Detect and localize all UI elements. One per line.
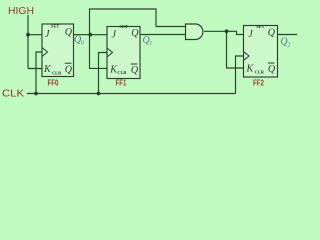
svg-text:K: K bbox=[43, 64, 52, 75]
svg-text:FF0: FF0 bbox=[48, 78, 59, 88]
junction CLK-FF1 bbox=[97, 92, 101, 96]
svg-text:Q: Q bbox=[131, 65, 139, 76]
svg-text:FF1: FF1 bbox=[116, 78, 127, 88]
svg-text:Q: Q bbox=[65, 27, 73, 38]
svg-text:J: J bbox=[112, 29, 117, 40]
node Q0 bbox=[74, 35, 84, 47]
node Q2 bbox=[280, 37, 290, 49]
svg-text:2: 2 bbox=[287, 43, 290, 49]
and gate U1 bbox=[186, 24, 203, 40]
wire CLK rail bbox=[27, 93, 236, 95]
svg-text:1: 1 bbox=[149, 41, 152, 47]
svg-text:0: 0 bbox=[81, 41, 84, 47]
svg-text:Q: Q bbox=[65, 65, 73, 76]
svg-text:SET: SET bbox=[256, 24, 264, 29]
svg-text:CLR: CLR bbox=[117, 70, 127, 75]
junction HIGH-J bbox=[26, 33, 30, 37]
svg-text:CLK: CLK bbox=[2, 88, 24, 100]
junction CLK-FF0 bbox=[34, 92, 38, 96]
wire Q0 riser to top rail into AND top input bbox=[90, 9, 186, 35]
svg-text:J: J bbox=[45, 29, 50, 40]
svg-text:CLR: CLR bbox=[52, 70, 62, 75]
wire Q0 down to FF1 K bbox=[90, 35, 108, 69]
wire FF2 Q output (node Q2) bbox=[278, 34, 298, 36]
wire FF2 clock branch from CLK rail end bbox=[236, 56, 244, 94]
flip-flop FF0 bbox=[42, 24, 74, 77]
wire HIGH vertical to J and K of FF0 bbox=[28, 15, 42, 69]
svg-text:FF2: FF2 bbox=[253, 78, 264, 88]
svg-text:J: J bbox=[248, 29, 253, 40]
svg-text:Q: Q bbox=[131, 28, 139, 39]
flip-flop FF1 bbox=[107, 24, 140, 79]
wire FF0 clock branch bbox=[36, 52, 42, 94]
junction Q0 bbox=[88, 33, 92, 37]
flip-flop FF2 bbox=[244, 24, 278, 77]
node Q1 bbox=[143, 35, 153, 47]
svg-text:SET: SET bbox=[51, 24, 59, 29]
svg-text:HIGH: HIGH bbox=[8, 5, 34, 17]
svg-text:CLR: CLR bbox=[255, 69, 265, 74]
junction AND-output to K2 bbox=[225, 29, 229, 33]
wire AND output branch to FF2 K bbox=[227, 31, 244, 68]
svg-text:K: K bbox=[246, 64, 255, 75]
wire FF1 Q to AND bottom input (node Q1) bbox=[140, 34, 186, 36]
svg-text:Q: Q bbox=[268, 64, 276, 75]
wire FF0 Q to FF1 J (node Q0) bbox=[74, 34, 108, 36]
svg-text:Q: Q bbox=[268, 28, 276, 39]
svg-text:SET: SET bbox=[120, 24, 128, 29]
wire AND output to FF2 J bbox=[204, 31, 244, 34]
wire FF1 clock branch bbox=[99, 53, 108, 94]
